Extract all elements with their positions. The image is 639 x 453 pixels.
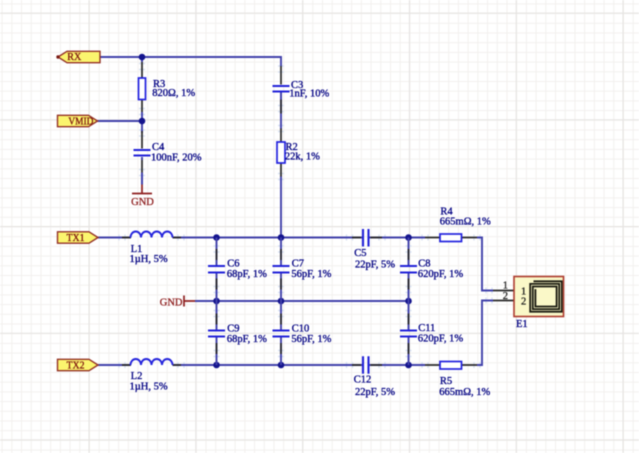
svg-text:C8: C8 bbox=[418, 259, 430, 270]
capacitor C3 bbox=[273, 66, 330, 114]
svg-text:22pF, 5%: 22pF, 5% bbox=[355, 387, 395, 398]
junction GND-C7/C10 bbox=[278, 298, 285, 305]
svg-text:1µH, 5%: 1µH, 5% bbox=[130, 381, 168, 392]
wire net TX2 row bbox=[98, 301, 493, 366]
capacitor C5 bbox=[352, 229, 395, 271]
wire C8 column bbox=[408, 238, 410, 302]
junction TX1-C8 bbox=[405, 234, 412, 241]
wire net GND row bbox=[195, 300, 409, 302]
junction GND-C8/C11 bbox=[405, 298, 412, 305]
resistor R2 bbox=[277, 129, 320, 177]
wire C3 bottom to R2 top bbox=[280, 92, 282, 129]
connector E1 bbox=[493, 277, 564, 331]
svg-text:TX1: TX1 bbox=[67, 233, 85, 244]
capacitor C12 bbox=[352, 356, 395, 398]
svg-text:GND: GND bbox=[131, 197, 154, 208]
svg-text:665mΩ, 1%: 665mΩ, 1% bbox=[440, 217, 491, 228]
svg-text:68pF, 1%: 68pF, 1% bbox=[227, 269, 267, 280]
svg-text:100nF, 20%: 100nF, 20% bbox=[151, 152, 202, 163]
inductor L1 bbox=[122, 232, 181, 265]
wire C11 column bbox=[408, 301, 410, 365]
junction TX2-C9 bbox=[213, 362, 220, 369]
power port GND (below C4) bbox=[131, 173, 154, 209]
svg-text:C10: C10 bbox=[292, 323, 310, 334]
junction TX2-C11 bbox=[405, 362, 412, 369]
svg-text:E1: E1 bbox=[516, 319, 528, 330]
svg-text:665mΩ, 1%: 665mΩ, 1% bbox=[439, 387, 490, 398]
capacitor C6 bbox=[208, 249, 267, 290]
svg-text:1nF, 10%: 1nF, 10% bbox=[289, 89, 329, 100]
junction TX2-C10 bbox=[278, 362, 285, 369]
svg-text:L2: L2 bbox=[131, 371, 143, 382]
wire net VMID: port VMID to R3 bottom / C4 top bbox=[98, 112, 143, 133]
svg-text:R5: R5 bbox=[440, 376, 452, 387]
svg-text:56pF, 1%: 56pF, 1% bbox=[291, 334, 331, 345]
port RX bbox=[56, 51, 100, 63]
wire C10 column bbox=[280, 301, 282, 365]
wire C7 column bbox=[280, 238, 282, 302]
pin hotspot markers bbox=[119, 64, 492, 369]
E1 coil spiral bbox=[530, 281, 562, 311]
junction TX1-C6 bbox=[213, 234, 220, 241]
capacitor C7 bbox=[273, 249, 332, 290]
svg-text:VMID: VMID bbox=[68, 116, 93, 127]
svg-text:22k, 1%: 22k, 1% bbox=[285, 151, 320, 162]
resistor R5 bbox=[425, 362, 491, 399]
junction GND-C6/C9 bbox=[213, 298, 220, 305]
resistor R4 bbox=[425, 206, 491, 241]
resistor R3 bbox=[139, 62, 196, 112]
svg-text:C5: C5 bbox=[354, 248, 366, 259]
svg-text:2: 2 bbox=[521, 297, 526, 308]
svg-text:C6: C6 bbox=[227, 259, 239, 270]
wire R2 bottom to TX1 row bbox=[280, 176, 282, 238]
svg-text:C7: C7 bbox=[292, 259, 304, 270]
svg-text:TX2: TX2 bbox=[67, 360, 85, 371]
svg-text:GND: GND bbox=[160, 298, 183, 309]
port VMID bbox=[58, 115, 98, 127]
svg-text:1: 1 bbox=[503, 281, 508, 292]
capacitor C10 bbox=[273, 314, 332, 355]
wire C9 column bbox=[216, 301, 218, 365]
capacitor C11 bbox=[400, 314, 463, 355]
svg-text:C9: C9 bbox=[227, 323, 239, 334]
svg-text:620pF, 1%: 620pF, 1% bbox=[418, 334, 463, 345]
port TX2 bbox=[58, 359, 99, 371]
svg-text:56pF, 1%: 56pF, 1% bbox=[291, 269, 331, 280]
wire net TX1 row bbox=[98, 238, 493, 291]
svg-text:1µH, 5%: 1µH, 5% bbox=[130, 254, 168, 265]
capacitor C9 bbox=[208, 314, 267, 355]
svg-text:620pF, 1%: 620pF, 1% bbox=[418, 269, 463, 280]
svg-text:2: 2 bbox=[503, 291, 508, 302]
svg-text:RX: RX bbox=[67, 52, 81, 63]
inductor L2 bbox=[122, 359, 181, 392]
svg-text:C11: C11 bbox=[418, 323, 435, 334]
junction VMID/R3/C4 bbox=[139, 118, 146, 125]
svg-text:820Ω, 1%: 820Ω, 1% bbox=[152, 88, 195, 99]
power port GND (left of GND row) bbox=[160, 296, 195, 309]
wire C6 column bbox=[216, 238, 218, 302]
capacitor C4 bbox=[134, 131, 202, 185]
svg-text:22pF, 5%: 22pF, 5% bbox=[355, 260, 395, 271]
port TX1 bbox=[58, 232, 99, 244]
wire net RX: port RX to C3 top / R3 top bbox=[100, 57, 281, 66]
svg-text:68pF, 1%: 68pF, 1% bbox=[227, 334, 267, 345]
junction TX1-C7 bbox=[278, 234, 285, 241]
junction RX/R3 bbox=[139, 54, 146, 61]
svg-text:C12: C12 bbox=[354, 374, 372, 385]
capacitor C8 bbox=[400, 249, 463, 290]
